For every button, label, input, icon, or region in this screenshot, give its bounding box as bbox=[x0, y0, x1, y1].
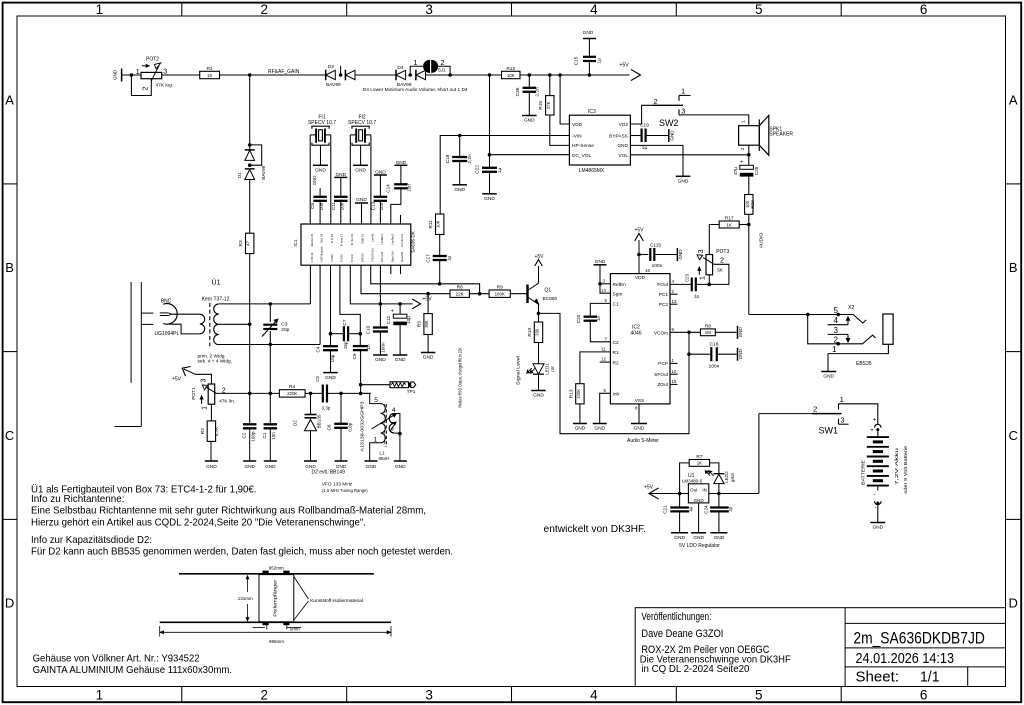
svg-text:Für D2 kann auch BB535 genomme: Für D2 kann auch BB535 genommen werden, … bbox=[31, 547, 453, 558]
svg-text:3,3p: 3,3p bbox=[322, 405, 331, 410]
svg-text:PC2: PC2 bbox=[659, 302, 669, 308]
svg-text:C2: C2 bbox=[241, 432, 246, 438]
svg-text:6: 6 bbox=[920, 688, 928, 703]
svg-text:5 VCC: 5 VCC bbox=[350, 254, 354, 262]
svg-text:BYPASS: BYPASS bbox=[609, 133, 628, 139]
svg-text:+: + bbox=[391, 309, 394, 315]
svg-text:3: 3 bbox=[163, 68, 167, 75]
LED2 gruen bbox=[713, 473, 724, 475]
svg-text:1: 1 bbox=[840, 395, 844, 404]
capacitor C25 electrolytic 47u bbox=[748, 155, 750, 166]
svg-text:-: - bbox=[874, 492, 876, 498]
svg-text:GND: GND bbox=[575, 426, 586, 432]
svg-text:131mm: 131mm bbox=[238, 596, 253, 601]
svg-text:2: 2 bbox=[260, 2, 268, 17]
svg-text:Kunststoff-Isoliermaterial: Kunststoff-Isoliermaterial bbox=[310, 598, 363, 604]
svg-text:Lim Out 11: Lim Out 11 bbox=[400, 234, 404, 247]
wire gnd to POT2 bbox=[122, 74, 141, 76]
svg-text:D2: D2 bbox=[293, 420, 298, 426]
svg-text:R3: R3 bbox=[238, 240, 244, 246]
svg-text:2: 2 bbox=[740, 147, 745, 150]
svg-text:10n: 10n bbox=[407, 184, 412, 192]
svg-text:+: + bbox=[740, 159, 743, 165]
svg-text:GND: GND bbox=[678, 249, 683, 260]
svg-text:GND: GND bbox=[423, 355, 434, 361]
svg-text:1µ: 1µ bbox=[694, 294, 700, 299]
svg-text:+: + bbox=[873, 416, 877, 423]
switch SW1 bbox=[759, 413, 812, 415]
wire VDD riser bbox=[560, 75, 569, 124]
svg-text:C8: C8 bbox=[310, 203, 315, 209]
svg-text:POT2: POT2 bbox=[146, 57, 159, 63]
wire POT2 to R1 bbox=[162, 74, 200, 76]
wire pin7 RSSI Out bbox=[371, 265, 480, 294]
svg-text:15: 15 bbox=[672, 379, 677, 384]
svg-text:R12: R12 bbox=[506, 66, 515, 72]
svg-text:A: A bbox=[5, 93, 14, 108]
svg-text:1n: 1n bbox=[596, 316, 601, 321]
svg-text:D2 evtl. BB149: D2 evtl. BB149 bbox=[312, 470, 346, 476]
svg-text:GND: GND bbox=[325, 375, 336, 381]
wire POT2 rheostat loop bbox=[131, 75, 151, 96]
svg-text:R15: R15 bbox=[538, 101, 544, 110]
svg-text:Data Out: Data Out bbox=[390, 251, 394, 262]
svg-text:VCOin: VCOin bbox=[654, 331, 668, 337]
svg-text:GND: GND bbox=[738, 348, 743, 359]
svg-text:220K: 220K bbox=[287, 391, 297, 396]
potentiometer POT1 bbox=[208, 384, 215, 404]
svg-text:ZOut: ZOut bbox=[657, 382, 668, 388]
wire S-meter loop bbox=[539, 313, 690, 433]
svg-text:R7: R7 bbox=[696, 454, 702, 460]
antenna drawing bottom element bbox=[160, 621, 391, 623]
svg-text:D: D bbox=[1009, 596, 1018, 611]
wire R20 to audio bbox=[748, 214, 750, 314]
svg-text:4,7K: 4,7K bbox=[214, 426, 219, 436]
svg-text:PCP: PCP bbox=[658, 361, 668, 367]
svg-text:POT3: POT3 bbox=[716, 249, 729, 255]
stub R2 pin bbox=[600, 361, 611, 363]
svg-text:10n: 10n bbox=[379, 202, 384, 210]
svg-text:GND: GND bbox=[714, 535, 725, 541]
svg-text:4046: 4046 bbox=[630, 331, 641, 337]
wire R1 pin to R13 bbox=[580, 352, 611, 384]
svg-text:R13: R13 bbox=[568, 389, 574, 398]
capacitor C36 bbox=[528, 75, 530, 87]
svg-text:12: 12 bbox=[601, 357, 606, 362]
svg-text:C5: C5 bbox=[315, 376, 320, 382]
svg-text:R10: R10 bbox=[527, 328, 533, 337]
svg-text:GND: GND bbox=[823, 374, 834, 380]
wire R2 to gnd bbox=[210, 441, 212, 461]
power +5V at Q1 bbox=[538, 266, 540, 283]
capacitor C115 bbox=[639, 254, 648, 256]
svg-text:GND: GND bbox=[244, 464, 255, 470]
svg-text:SW2: SW2 bbox=[659, 118, 679, 128]
capacitor C9 bbox=[359, 334, 361, 346]
node junction to D1 branch bbox=[248, 73, 252, 77]
wire pin3 OSC bbox=[330, 265, 332, 334]
svg-text:1 RF IN: 1 RF IN bbox=[310, 253, 314, 262]
svg-text:R2: R2 bbox=[613, 360, 619, 366]
wire POT3 loop bbox=[708, 275, 710, 285]
svg-text:BAV99: BAV99 bbox=[261, 165, 266, 179]
svg-text:C15: C15 bbox=[574, 56, 580, 65]
title block bbox=[635, 608, 1005, 687]
wire R6 to R9 bbox=[469, 293, 489, 295]
wire DC_VOL riser bbox=[490, 75, 570, 155]
svg-text:14: 14 bbox=[601, 288, 606, 293]
svg-text:GND: GND bbox=[315, 168, 326, 174]
svg-text:Info zu Richtantenne:: Info zu Richtantenne: bbox=[31, 494, 125, 505]
capacitor C17 bbox=[439, 235, 441, 256]
resistor R12 bbox=[502, 71, 521, 78]
svg-text:GND: GND bbox=[484, 196, 495, 202]
svg-text:VDD: VDD bbox=[572, 122, 583, 128]
svg-text:R20: R20 bbox=[750, 200, 755, 209]
svg-text:C25: C25 bbox=[754, 166, 759, 175]
svg-text:1: 1 bbox=[681, 86, 685, 95]
svg-text:GAINTA ALUMINIUM Gehäuse 111x6: GAINTA ALUMINIUM Gehäuse 111x60x30mm. bbox=[33, 665, 233, 676]
svg-text:D3: D3 bbox=[328, 64, 334, 70]
svg-text:4: 4 bbox=[392, 407, 396, 414]
diode D1 BAV99 bbox=[248, 143, 252, 147]
wire pin8 bbox=[379, 265, 381, 304]
svg-text:C6: C6 bbox=[326, 424, 331, 430]
svg-text:R5: R5 bbox=[417, 321, 423, 327]
svg-text:C24: C24 bbox=[703, 505, 708, 514]
resistor R3 bbox=[246, 233, 254, 253]
svg-text:3: 3 bbox=[425, 688, 433, 703]
svg-text:D: D bbox=[5, 596, 14, 611]
svg-text:BC850: BC850 bbox=[543, 296, 558, 302]
svg-text:1K: 1K bbox=[727, 222, 732, 227]
svg-text:10: 10 bbox=[672, 369, 677, 374]
svg-text:RefEn: RefEn bbox=[613, 282, 627, 288]
wire C5 to L1 node bbox=[327, 392, 371, 394]
svg-text:SPEAKER: SPEAKER bbox=[769, 131, 793, 137]
svg-text:Dave Deane G3ZOI: Dave Deane G3ZOI bbox=[641, 628, 723, 640]
IC U1 SA636 body bbox=[301, 224, 411, 265]
svg-text:3: 3 bbox=[840, 415, 844, 424]
svg-text:3: 3 bbox=[201, 379, 208, 383]
resistor R10 bbox=[538, 313, 540, 322]
speaker SPK1 bbox=[739, 126, 760, 146]
svg-text:6 RSSI: 6 RSSI bbox=[360, 253, 364, 262]
svg-text:330: 330 bbox=[535, 328, 540, 336]
svg-text:GND: GND bbox=[678, 179, 689, 185]
capacitor C6 bbox=[340, 393, 342, 423]
svg-text:IN: IN bbox=[702, 488, 707, 493]
transistor Q1 BC850 bbox=[526, 285, 528, 304]
svg-text:GND: GND bbox=[375, 357, 386, 363]
svg-text:-VIN: -VIN bbox=[572, 133, 582, 139]
wire R1 to D3 bbox=[220, 74, 326, 76]
svg-text:C16: C16 bbox=[710, 341, 719, 347]
capacitor C24 bbox=[718, 494, 720, 508]
svg-text:GND: GND bbox=[583, 30, 594, 36]
svg-text:EBS35: EBS35 bbox=[856, 361, 872, 367]
antenna receiver box bbox=[259, 575, 294, 622]
svg-text:C4: C4 bbox=[315, 346, 320, 352]
svg-text:GND: GND bbox=[669, 130, 674, 141]
svg-text:C21: C21 bbox=[663, 505, 668, 514]
svg-text:1K: 1K bbox=[697, 461, 702, 466]
wire VD2 to SW2 bbox=[630, 105, 652, 124]
inductor L1 tap winding bbox=[389, 414, 394, 434]
svg-text:1: 1 bbox=[740, 120, 745, 123]
svg-text:entwickelt von DK3HF.: entwickelt von DK3HF. bbox=[544, 523, 647, 535]
svg-text:VD2: VD2 bbox=[619, 122, 629, 128]
svg-text:BB135: BB135 bbox=[316, 414, 321, 428]
svg-text:Gehäuse von Völkner Art. Nr.:: Gehäuse von Völkner Art. Nr.: Y934522 bbox=[33, 653, 200, 664]
svg-text:3 OSC: 3 OSC bbox=[330, 254, 334, 262]
svg-text:POT1: POT1 bbox=[191, 387, 197, 400]
svg-text:2,2n: 2,2n bbox=[467, 154, 473, 164]
wire -VIN to R11 bbox=[440, 136, 569, 215]
svg-text:1n: 1n bbox=[366, 344, 371, 350]
svg-text:A13138-0032GGHP3: A13138-0032GGHP3 bbox=[360, 401, 365, 452]
wire pin6 RSSI bbox=[361, 265, 450, 294]
svg-text:100K: 100K bbox=[495, 292, 505, 297]
svg-text:GND: GND bbox=[738, 327, 743, 338]
svg-text:1µ: 1µ bbox=[497, 168, 503, 174]
svg-text:R11: R11 bbox=[428, 220, 434, 229]
resistor R6 bbox=[450, 290, 469, 297]
svg-text:10n: 10n bbox=[340, 202, 345, 210]
svg-text:952mm: 952mm bbox=[269, 566, 284, 571]
resistor R1 bbox=[200, 71, 220, 78]
svg-text:10K: 10K bbox=[436, 220, 441, 228]
svg-text:22K: 22K bbox=[456, 292, 464, 297]
svg-text:6: 6 bbox=[920, 2, 928, 17]
svg-text:5V LDO Regulator: 5V LDO Regulator bbox=[679, 543, 720, 549]
svg-text:Signal Level: Signal Level bbox=[515, 356, 521, 385]
testpoint TP1 bbox=[360, 353, 362, 394]
svg-text:27K: 27K bbox=[546, 101, 551, 109]
wire U1 IN to SW1 riser bbox=[709, 493, 759, 495]
svg-text:De1 19: De1 19 bbox=[320, 234, 324, 243]
svg-text:BAV99: BAV99 bbox=[326, 82, 341, 88]
svg-text:3: 3 bbox=[834, 326, 839, 335]
svg-text:GND: GND bbox=[693, 535, 704, 541]
svg-text:3: 3 bbox=[681, 107, 685, 116]
resistor R7 bbox=[680, 463, 690, 494]
svg-text:1: 1 bbox=[96, 688, 104, 703]
svg-text:VDD: VDD bbox=[635, 275, 646, 281]
svg-text:GND: GND bbox=[634, 426, 645, 432]
potentiometer POT3 bbox=[706, 255, 713, 275]
svg-text:10: 10 bbox=[207, 73, 212, 78]
svg-text:GND: GND bbox=[594, 426, 605, 432]
stub pin9 pin10 bbox=[390, 265, 392, 274]
dim 5mm bbox=[266, 622, 268, 629]
svg-text:1µ: 1µ bbox=[597, 58, 603, 64]
svg-text:in CQ DL 2-2024 Seite20: in CQ DL 2-2024 Seite20 bbox=[641, 664, 749, 675]
svg-text:B: B bbox=[5, 260, 14, 275]
svg-text:Sheet:: Sheet: bbox=[856, 670, 900, 686]
svg-text:16: 16 bbox=[645, 268, 650, 273]
svg-text:C14: C14 bbox=[385, 184, 390, 193]
svg-text:GND: GND bbox=[674, 535, 685, 541]
antenna prongs bbox=[141, 312, 153, 314]
svg-text:R2: R2 bbox=[200, 428, 206, 434]
transformer U1 primary bbox=[200, 314, 205, 334]
svg-text:GND: GND bbox=[395, 357, 406, 363]
svg-text:SFOut: SFOut bbox=[654, 372, 669, 378]
capacitor C16 bbox=[689, 353, 710, 355]
svg-text:R17: R17 bbox=[725, 216, 734, 222]
svg-text:1: 1 bbox=[136, 69, 140, 76]
svg-text:SJ1: SJ1 bbox=[438, 68, 446, 73]
wire speaker pin2 bbox=[748, 145, 750, 155]
svg-text:FOut: FOut bbox=[657, 282, 668, 288]
svg-text:+5V: +5V bbox=[423, 297, 433, 303]
capacitor C21 bbox=[679, 494, 681, 508]
svg-text:1µ: 1µ bbox=[728, 507, 733, 513]
svg-text:3: 3 bbox=[698, 249, 705, 253]
svg-text:IF In 18: IF In 18 bbox=[330, 234, 334, 244]
wire SW2 to speaker bbox=[683, 115, 749, 126]
svg-text:GND: GND bbox=[265, 464, 276, 470]
svg-text:1/1: 1/1 bbox=[920, 670, 940, 686]
svg-text:GND: GND bbox=[524, 118, 535, 124]
svg-text:68nH: 68nH bbox=[379, 456, 390, 461]
wire R9 to Q1 bbox=[510, 293, 527, 295]
svg-text:IC3: IC3 bbox=[588, 109, 596, 115]
capacitor C7 bbox=[331, 333, 344, 335]
resistor R11 bbox=[436, 214, 444, 235]
svg-text:13: 13 bbox=[672, 299, 677, 304]
capacitor C2 bbox=[243, 423, 257, 425]
varactor D2 BB135 bbox=[310, 393, 312, 414]
wire D3 to D4 bbox=[355, 74, 396, 76]
svg-text:HP-Sense: HP-Sense bbox=[572, 143, 594, 149]
svg-text:IF Out 16: IF Out 16 bbox=[350, 233, 354, 245]
svg-text:47K lin.: 47K lin. bbox=[219, 398, 235, 404]
capacitor C23 bbox=[670, 283, 692, 285]
kunststoff label + leaders bbox=[294, 577, 309, 600]
svg-text:4: 4 bbox=[834, 316, 839, 325]
svg-text:C7: C7 bbox=[342, 319, 347, 325]
svg-text:VOL: VOL bbox=[618, 153, 628, 159]
svg-text:47: 47 bbox=[246, 240, 251, 245]
svg-text:3: 3 bbox=[425, 2, 433, 17]
potentiometer POT2 bbox=[141, 72, 162, 78]
resistor R17 bbox=[719, 221, 739, 228]
diode D3 BAV99 bbox=[325, 70, 327, 81]
ground GND left of POT2 bbox=[121, 69, 123, 82]
resistor R15 bbox=[549, 75, 551, 96]
svg-text:100p: 100p bbox=[250, 431, 255, 442]
node junction POT2 loop bbox=[130, 73, 134, 77]
capacitor C10 bbox=[379, 304, 381, 327]
svg-text:100n: 100n bbox=[709, 363, 720, 369]
svg-text:Eine Selbstbau Richtantenne mi: Eine Selbstbau Richtantenne mit sehr gut… bbox=[31, 506, 426, 517]
svg-text:47K log.: 47K log. bbox=[156, 83, 174, 89]
svg-text:LimDec1: LimDec1 bbox=[380, 233, 384, 244]
svg-text:Reduce RSSI Output, changed R6: Reduce RSSI Output, changed R6 to 22K bbox=[458, 347, 463, 407]
wire R3 down to C2 bbox=[249, 254, 251, 425]
wire secondary bottom bbox=[219, 344, 320, 346]
svg-text:2: 2 bbox=[654, 97, 658, 106]
svg-text:LM3480-5: LM3480-5 bbox=[682, 478, 703, 483]
svg-text:GND: GND bbox=[454, 187, 465, 193]
svg-text:39K: 39K bbox=[424, 320, 429, 328]
svg-text:4 OSC: 4 OSC bbox=[340, 254, 344, 262]
svg-text:RF&AF_GAIN: RF&AF_GAIN bbox=[268, 69, 300, 75]
svg-text:B: B bbox=[1009, 260, 1018, 275]
svg-text:VSS: VSS bbox=[635, 398, 645, 404]
antenna rail left bbox=[130, 282, 132, 383]
wire GND pin of IC3 bbox=[630, 145, 683, 176]
svg-text:C115: C115 bbox=[650, 243, 661, 249]
svg-text:0,0p: 0,0p bbox=[348, 422, 353, 431]
capacitor C5 3,3p bbox=[322, 385, 324, 403]
svg-text:MixOut 20: MixOut 20 bbox=[310, 233, 314, 246]
svg-text:5mm: 5mm bbox=[290, 627, 300, 632]
IC IC2 4046 body bbox=[610, 274, 670, 404]
svg-text:oder 9 Volt Batterie: oder 9 Volt Batterie bbox=[903, 445, 908, 494]
svg-text:D4 Lower Minimum Audio Volume,: D4 Lower Minimum Audio Volume, short out… bbox=[363, 87, 468, 93]
resistor R13 bbox=[576, 384, 584, 404]
diode D4 BAV99 bbox=[395, 70, 397, 81]
wire secondary center tap bbox=[219, 323, 250, 325]
svg-text:2: 2 bbox=[720, 258, 724, 265]
svg-text:GND: GND bbox=[617, 143, 628, 149]
svg-text:R8: R8 bbox=[705, 323, 711, 329]
svg-text:2: 2 bbox=[390, 427, 394, 434]
svg-text:rot: rot bbox=[550, 366, 555, 372]
svg-text:Inh: Inh bbox=[613, 391, 620, 397]
svg-text:Lim IN: Lim IN bbox=[370, 234, 374, 242]
wire pin4 OSC to C9 bbox=[340, 265, 360, 334]
wire C3 bottom to C1 bbox=[269, 345, 271, 425]
svg-text:IF Amp 17: IF Amp 17 bbox=[340, 233, 344, 246]
wire pin1 RF IN bbox=[309, 265, 311, 304]
svg-text:SW1: SW1 bbox=[819, 426, 839, 436]
wire R15 to HP-Sense bbox=[550, 115, 570, 145]
svg-text:Audio S-Meter: Audio S-Meter bbox=[627, 438, 659, 444]
svg-text:-: - bbox=[875, 505, 877, 511]
capacitor C1 bbox=[264, 423, 278, 425]
svg-text:2: 2 bbox=[142, 87, 149, 91]
svg-text:C2: C2 bbox=[613, 340, 619, 346]
svg-text:Kern T37-12: Kern T37-12 bbox=[202, 297, 230, 303]
svg-text:R9: R9 bbox=[497, 285, 503, 291]
svg-text:D4: D4 bbox=[397, 65, 403, 71]
wire R4 to C5 bbox=[305, 392, 323, 394]
antenna drawing top element bbox=[179, 573, 374, 575]
svg-text:47µ: 47µ bbox=[733, 167, 738, 175]
svg-text:C13: C13 bbox=[371, 201, 376, 210]
IC IC3 LM4865MX body bbox=[569, 115, 630, 165]
svg-text:C22: C22 bbox=[475, 165, 481, 174]
svg-text:X2: X2 bbox=[848, 305, 854, 311]
regulator U1 LM3480-5 bbox=[688, 484, 708, 503]
capacitor C19 bbox=[630, 135, 641, 137]
svg-text:+5V: +5V bbox=[172, 377, 182, 383]
svg-text:2: 2 bbox=[813, 405, 817, 414]
svg-text:Out: Out bbox=[690, 488, 698, 493]
jack sleeve bbox=[883, 314, 893, 344]
svg-text:1µ: 1µ bbox=[688, 507, 693, 513]
wire jack pin1 to gnd bbox=[827, 354, 829, 372]
svg-text:GND: GND bbox=[693, 498, 704, 503]
wire R12 to +5V bbox=[520, 74, 630, 76]
svg-text:PC1: PC1 bbox=[659, 292, 669, 298]
svg-text:Q1: Q1 bbox=[545, 288, 552, 294]
